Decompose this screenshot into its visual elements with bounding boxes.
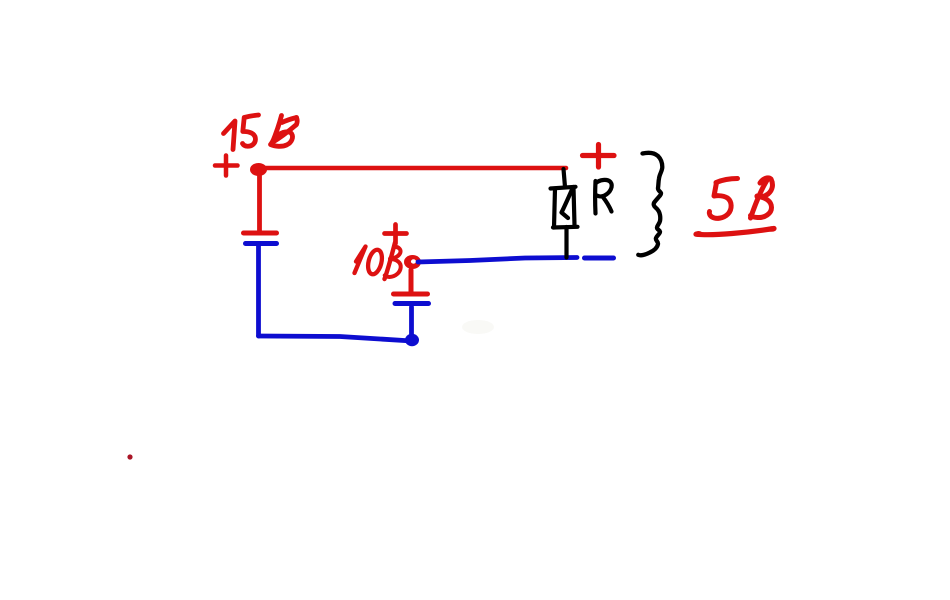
resistor R body — [551, 187, 578, 228]
plus sign of 15V source — [215, 156, 238, 176]
battery V1 positive plate — [244, 231, 277, 236]
curly brace — [638, 153, 662, 255]
label 15В — [224, 113, 298, 150]
label R — [595, 180, 612, 214]
wire bottom blue — [259, 336, 413, 341]
node A junction dot — [250, 163, 267, 176]
node B junction dot — [405, 334, 419, 346]
wire middle blue — [418, 258, 577, 263]
smudge artifact — [462, 320, 494, 334]
resistor top lead — [564, 169, 566, 187]
node C terminal dot — [404, 255, 421, 269]
battery V1 negative lead — [256, 244, 261, 336]
battery V2 negative plate — [395, 301, 429, 306]
battery V2 positive lead — [409, 270, 414, 292]
plus sign of 10V source — [385, 225, 407, 244]
underline of 5В — [694, 226, 776, 237]
battery V2 negative lead — [409, 307, 414, 341]
resistor bottom lead — [564, 227, 568, 258]
label 10В — [355, 243, 401, 280]
stray red dot — [127, 454, 132, 459]
battery V1 negative plate — [246, 241, 277, 246]
minus sign at resistor bottom — [585, 256, 614, 261]
battery V1 positive lead — [257, 170, 262, 231]
battery V2 positive plate — [394, 292, 428, 297]
plus sign at resistor top — [583, 145, 615, 168]
wire top red — [258, 166, 566, 171]
label 5В — [709, 178, 772, 218]
